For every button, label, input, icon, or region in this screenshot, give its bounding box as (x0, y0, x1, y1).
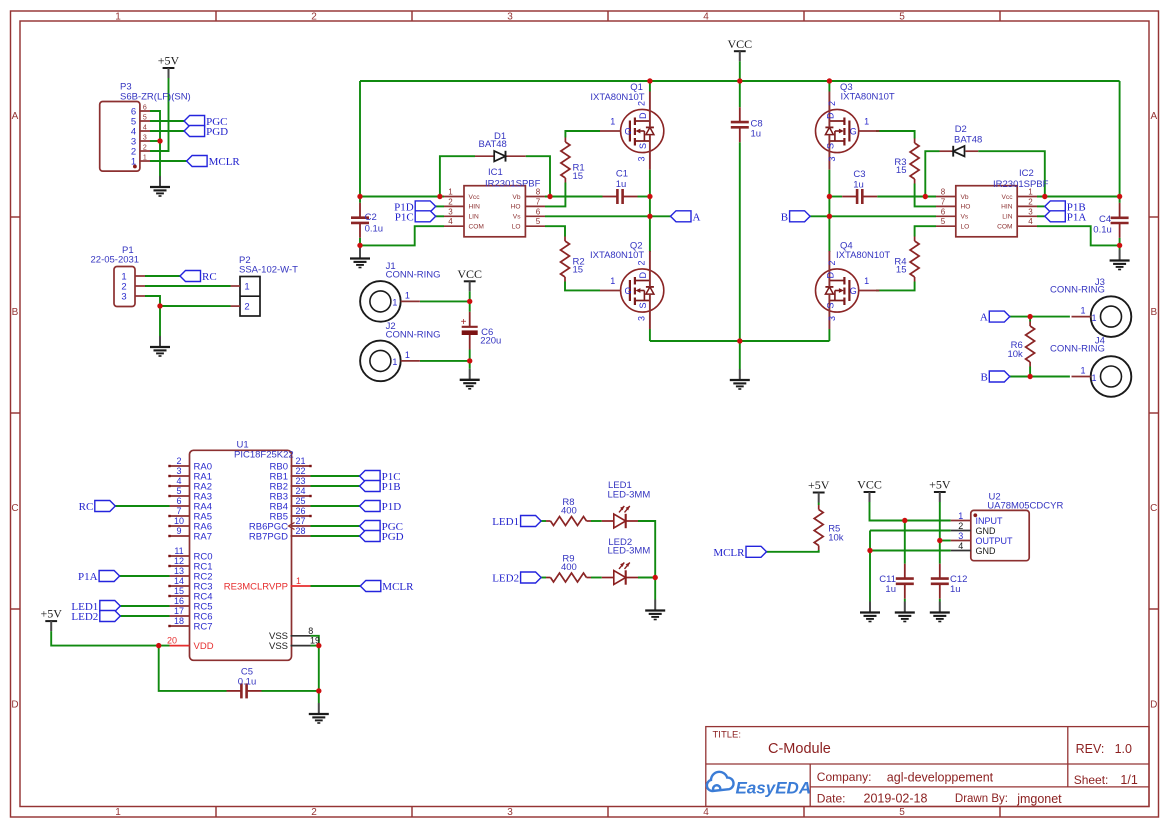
svg-text:1: 1 (1080, 366, 1085, 376)
svg-text:D: D (825, 271, 835, 278)
svg-text:1: 1 (392, 297, 397, 307)
svg-text:COM: COM (997, 224, 1012, 231)
svg-text:23: 23 (295, 476, 305, 486)
svg-text:3: 3 (827, 316, 837, 321)
svg-text:7: 7 (536, 197, 541, 206)
svg-text:2: 2 (827, 260, 837, 265)
svg-text:1: 1 (448, 188, 453, 197)
svg-text:15: 15 (896, 165, 907, 176)
svg-text:CONN-RING: CONN-RING (1050, 285, 1105, 296)
svg-text:2: 2 (143, 145, 147, 152)
svg-text:GND: GND (976, 526, 997, 536)
svg-text:12: 12 (174, 556, 184, 566)
svg-text:LO: LO (512, 224, 521, 231)
svg-text:2: 2 (1028, 197, 1033, 206)
svg-text:2019-02-18: 2019-02-18 (864, 791, 928, 805)
svg-text:5: 5 (899, 807, 905, 818)
svg-text:G: G (850, 126, 857, 136)
svg-text:1: 1 (143, 155, 147, 162)
svg-text:HO: HO (961, 204, 971, 211)
svg-text:C1: C1 (616, 169, 628, 180)
svg-text:INPUT: INPUT (976, 516, 1004, 526)
svg-text:0.1u: 0.1u (238, 677, 257, 688)
svg-text:C: C (11, 503, 18, 514)
svg-text:8: 8 (941, 188, 946, 197)
svg-text:A: A (1150, 111, 1157, 122)
svg-text:PIC18F25K22: PIC18F25K22 (234, 450, 294, 461)
svg-text:15: 15 (573, 171, 584, 182)
svg-text:A: A (12, 111, 19, 122)
svg-text:BAT48: BAT48 (479, 139, 507, 150)
svg-text:5: 5 (941, 217, 946, 226)
svg-text:IXTA80N10T: IXTA80N10T (841, 92, 895, 103)
svg-text:1u: 1u (885, 584, 896, 595)
svg-text:17: 17 (174, 606, 184, 616)
svg-text:3: 3 (121, 292, 126, 303)
svg-text:6: 6 (941, 207, 946, 216)
svg-text:2: 2 (311, 12, 317, 23)
svg-text:+5V: +5V (808, 478, 830, 492)
svg-text:2: 2 (448, 197, 453, 206)
svg-text:1u: 1u (950, 584, 961, 595)
svg-text:0.1u: 0.1u (365, 224, 384, 235)
svg-text:15: 15 (174, 586, 184, 596)
svg-text:3: 3 (1028, 207, 1033, 216)
svg-text:P1C: P1C (395, 211, 414, 223)
svg-text:LIN: LIN (1002, 214, 1012, 221)
svg-text:RB7PGD: RB7PGD (249, 531, 288, 542)
svg-text:220u: 220u (480, 336, 501, 347)
svg-text:VCC: VCC (457, 267, 482, 281)
svg-text:HIN: HIN (469, 204, 481, 211)
svg-text:Vcc: Vcc (1002, 194, 1014, 201)
svg-text:4: 4 (703, 807, 709, 818)
svg-text:2: 2 (176, 456, 181, 466)
svg-text:C4: C4 (1099, 214, 1111, 225)
svg-text:VDD: VDD (194, 641, 214, 652)
svg-text:1u: 1u (751, 129, 762, 140)
svg-text:15: 15 (896, 265, 907, 276)
svg-text:4: 4 (1028, 217, 1033, 226)
svg-text:20: 20 (167, 636, 177, 646)
svg-text:P1A: P1A (78, 571, 98, 583)
svg-text:IC2: IC2 (1019, 168, 1034, 179)
svg-text:MCLR: MCLR (382, 581, 414, 593)
svg-text:6: 6 (536, 207, 541, 216)
svg-text:2: 2 (827, 101, 837, 106)
svg-text:D2: D2 (955, 124, 967, 135)
svg-text:1: 1 (405, 350, 410, 360)
svg-text:8: 8 (308, 626, 313, 636)
svg-text:Vb: Vb (512, 194, 520, 201)
svg-text:IR2301SPBF: IR2301SPBF (993, 179, 1049, 190)
svg-text:1: 1 (610, 117, 615, 127)
svg-text:D: D (638, 271, 648, 278)
svg-text:C-Module: C-Module (768, 741, 831, 757)
svg-text:3: 3 (636, 156, 646, 161)
svg-text:P1A: P1A (1067, 211, 1087, 223)
svg-text:Company:: Company: (817, 770, 872, 784)
svg-text:3: 3 (507, 12, 513, 23)
svg-text:Vs: Vs (961, 214, 969, 221)
svg-text:IXTA80N10T: IXTA80N10T (836, 250, 890, 261)
svg-text:IXTA80N10T: IXTA80N10T (590, 92, 644, 103)
svg-text:EasyEDA: EasyEDA (736, 779, 812, 798)
svg-text:3: 3 (827, 156, 837, 161)
svg-text:HO: HO (511, 204, 521, 211)
svg-text:5: 5 (143, 115, 147, 122)
svg-text:+5V: +5V (929, 478, 951, 492)
svg-text:SSA-102-W-T: SSA-102-W-T (239, 265, 298, 276)
svg-text:2: 2 (636, 260, 646, 265)
svg-text:400: 400 (561, 562, 577, 573)
svg-text:+5V: +5V (40, 607, 62, 621)
svg-text:A: A (980, 312, 988, 324)
svg-text:HIN: HIN (1001, 204, 1013, 211)
svg-text:RC: RC (202, 271, 217, 283)
svg-text:RC7: RC7 (194, 621, 213, 632)
svg-text:COM: COM (469, 224, 484, 231)
svg-text:1: 1 (244, 282, 249, 293)
svg-text:11: 11 (174, 546, 183, 556)
svg-text:3: 3 (507, 807, 513, 818)
svg-text:1: 1 (296, 576, 301, 586)
svg-text:16: 16 (174, 596, 184, 606)
svg-text:10k: 10k (828, 533, 844, 544)
svg-text:4: 4 (448, 217, 453, 226)
svg-text:6: 6 (143, 105, 147, 112)
svg-text:22-05-2031: 22-05-2031 (91, 255, 140, 266)
svg-text:G: G (625, 286, 632, 296)
svg-text:VCC: VCC (727, 37, 752, 51)
svg-text:jmgonet: jmgonet (1016, 792, 1062, 806)
svg-text:D: D (1150, 700, 1157, 711)
svg-text:TITLE:: TITLE: (713, 730, 742, 741)
svg-text:LED-3MM: LED-3MM (608, 546, 651, 557)
svg-text:IXTA80N10T: IXTA80N10T (590, 250, 644, 261)
svg-text:1: 1 (405, 290, 410, 300)
svg-text:LED2: LED2 (71, 611, 98, 623)
svg-text:C: C (1150, 503, 1157, 514)
svg-text:Vs: Vs (513, 214, 521, 221)
svg-text:21: 21 (295, 456, 305, 466)
svg-text:1: 1 (115, 807, 121, 818)
svg-text:1: 1 (1092, 373, 1097, 383)
svg-text:15: 15 (573, 265, 584, 276)
svg-text:22: 22 (295, 466, 305, 476)
svg-text:4: 4 (176, 476, 181, 486)
svg-text:1: 1 (864, 276, 869, 286)
svg-text:PGD: PGD (206, 126, 228, 138)
svg-text:C2: C2 (365, 212, 377, 223)
svg-text:P1D: P1D (382, 501, 402, 513)
svg-text:24: 24 (295, 486, 305, 496)
svg-text:7: 7 (176, 506, 181, 516)
svg-text:28: 28 (295, 526, 305, 536)
svg-text:2: 2 (244, 302, 249, 313)
svg-text:B: B (1150, 307, 1157, 318)
svg-text:+: + (461, 317, 467, 328)
svg-text:agl-developpement: agl-developpement (887, 770, 994, 784)
svg-text:1.0: 1.0 (1115, 742, 1132, 756)
svg-text:4: 4 (958, 541, 963, 551)
svg-text:9: 9 (176, 526, 181, 536)
svg-text:5: 5 (536, 217, 541, 226)
svg-text:2: 2 (958, 521, 963, 531)
svg-text:VCC: VCC (857, 478, 882, 492)
svg-text:4: 4 (143, 125, 147, 132)
svg-text:RA7: RA7 (194, 531, 212, 542)
svg-text:VSS: VSS (269, 641, 288, 652)
svg-text:5: 5 (176, 486, 181, 496)
svg-text:OUTPUT: OUTPUT (976, 536, 1014, 546)
svg-text:1u: 1u (616, 179, 627, 190)
svg-text:1: 1 (610, 276, 615, 286)
svg-text:RE3MCLRVPP: RE3MCLRVPP (224, 581, 288, 592)
svg-text:5: 5 (899, 12, 905, 23)
svg-text:LED1: LED1 (492, 516, 519, 528)
svg-text:G: G (850, 286, 857, 296)
svg-text:3: 3 (143, 135, 147, 142)
svg-text:PGD: PGD (382, 531, 404, 543)
svg-text:3: 3 (958, 531, 963, 541)
svg-text:B: B (980, 372, 987, 384)
svg-text:CONN-RING: CONN-RING (386, 270, 441, 281)
svg-text:1: 1 (1092, 313, 1097, 323)
svg-text:S: S (825, 143, 835, 149)
svg-text:LED-3MM: LED-3MM (608, 490, 651, 501)
svg-text:B: B (12, 307, 19, 318)
svg-text:LED2: LED2 (492, 573, 519, 585)
svg-text:MCLR: MCLR (713, 547, 745, 559)
svg-text:1: 1 (392, 357, 397, 367)
svg-text:G: G (625, 126, 632, 136)
svg-text:D: D (11, 700, 18, 711)
svg-text:S6B-ZR(LF)(SN): S6B-ZR(LF)(SN) (120, 92, 191, 103)
svg-text:1: 1 (115, 12, 121, 23)
svg-text:LO: LO (961, 224, 970, 231)
svg-text:3: 3 (636, 316, 646, 321)
svg-text:Vcc: Vcc (469, 194, 481, 201)
svg-text:B: B (781, 211, 788, 223)
svg-text:1u: 1u (853, 179, 864, 190)
svg-text:IR2301SPBF: IR2301SPBF (485, 178, 541, 189)
svg-text:10: 10 (174, 516, 184, 526)
svg-text:3: 3 (448, 207, 453, 216)
svg-text:UA78M05CDCYR: UA78M05CDCYR (987, 501, 1063, 512)
svg-text:14: 14 (174, 576, 184, 586)
svg-text:GND: GND (976, 546, 997, 556)
svg-text:25: 25 (295, 496, 305, 506)
svg-text:BAT48: BAT48 (954, 135, 982, 146)
svg-text:1: 1 (1080, 306, 1085, 316)
svg-text:P1B: P1B (382, 481, 401, 493)
svg-text:18: 18 (174, 616, 184, 626)
svg-text:Sheet:: Sheet: (1074, 773, 1109, 787)
svg-text:S: S (638, 143, 648, 149)
svg-text:4: 4 (703, 12, 709, 23)
svg-text:CONN-RING: CONN-RING (1050, 344, 1105, 355)
svg-text:1: 1 (864, 117, 869, 127)
svg-text:10k: 10k (1007, 349, 1023, 360)
svg-text:REV:: REV: (1076, 742, 1105, 756)
svg-text:Date:: Date: (817, 791, 846, 805)
svg-text:Drawn By:: Drawn By: (955, 793, 1008, 805)
svg-text:3: 3 (176, 466, 181, 476)
svg-text:MCLR: MCLR (209, 156, 241, 168)
svg-text:LIN: LIN (469, 214, 479, 221)
svg-text:6: 6 (176, 496, 181, 506)
svg-text:S: S (638, 302, 648, 308)
svg-text:27: 27 (295, 516, 305, 526)
svg-text:26: 26 (295, 506, 305, 516)
svg-text:A: A (693, 211, 701, 223)
svg-text:13: 13 (174, 566, 184, 576)
svg-text:CONN-RING: CONN-RING (386, 330, 441, 341)
svg-text:IC1: IC1 (488, 167, 503, 178)
svg-text:D: D (825, 112, 835, 119)
svg-text:2: 2 (311, 807, 317, 818)
svg-text:7: 7 (941, 197, 946, 206)
svg-text:RC: RC (79, 501, 94, 513)
svg-text:1/1: 1/1 (1120, 773, 1137, 787)
svg-text:D: D (638, 112, 648, 119)
svg-text:400: 400 (561, 506, 577, 517)
svg-text:S: S (825, 302, 835, 308)
svg-text:1: 1 (958, 511, 963, 521)
svg-text:Vb: Vb (961, 194, 969, 201)
svg-text:+5V: +5V (158, 54, 180, 68)
svg-text:0.1u: 0.1u (1093, 225, 1112, 236)
